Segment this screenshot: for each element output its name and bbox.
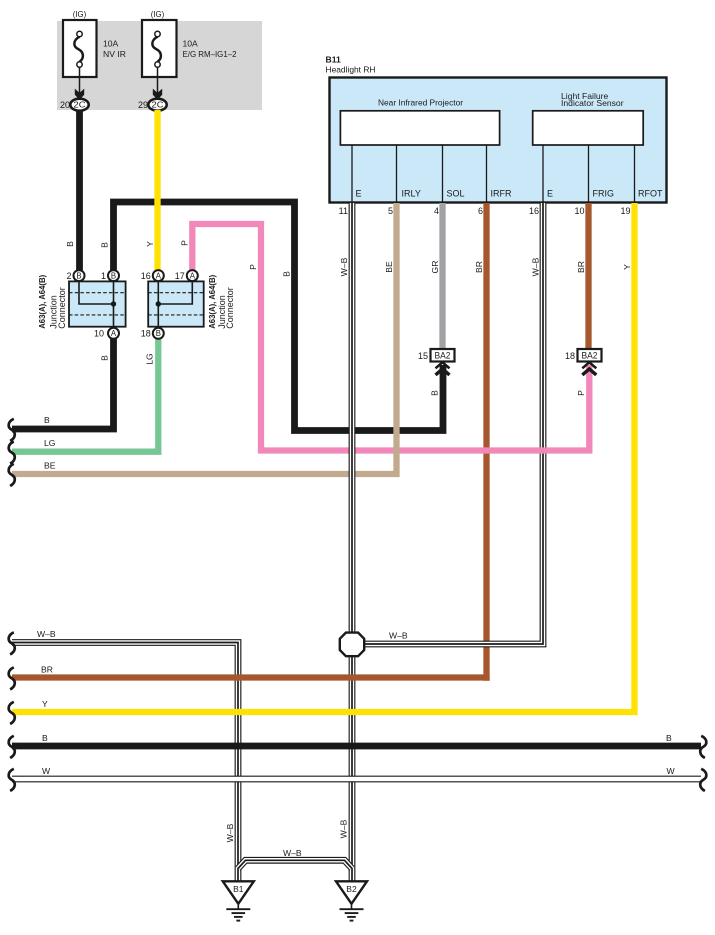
svg-text:NV IR: NV IR [103, 49, 126, 59]
svg-text:11: 11 [339, 206, 348, 216]
svg-text:GR: GR [430, 261, 440, 274]
connector 2C pin 29 [148, 99, 166, 111]
svg-text:B: B [100, 242, 110, 248]
svg-text:2: 2 [66, 271, 71, 281]
light failure indicator sensor block [533, 111, 644, 145]
wire stub pin 16 [542, 144, 544, 202]
offpage squiggle B bus right [700, 736, 706, 758]
svg-text:B: B [430, 390, 440, 396]
svg-text:Connector: Connector [57, 287, 67, 329]
svg-text:W–B: W–B [339, 257, 349, 276]
svg-text:Near Infrared Projector: Near Infrared Projector [378, 97, 463, 107]
svg-text:B: B [282, 271, 292, 277]
ground B1 [223, 881, 254, 920]
offpage squiggle BR row [9, 667, 15, 689]
svg-text:B11: B11 [326, 55, 342, 65]
fuse block gray panel [57, 21, 262, 110]
svg-text:15: 15 [418, 351, 428, 361]
wire BR bus to offpage [12, 674, 490, 680]
wire W-B offpage to B1 ground [12, 643, 238, 882]
svg-text:10A: 10A [183, 39, 199, 49]
svg-text:W–B: W–B [283, 848, 302, 858]
svg-text:W–B: W–B [339, 819, 349, 838]
svg-text:B: B [111, 271, 116, 280]
svg-text:20: 20 [60, 100, 70, 110]
junction octagon W-B [340, 633, 364, 657]
svg-text:17: 17 [175, 271, 185, 281]
svg-text:A63(A), A64(B): A63(A), A64(B) [37, 275, 47, 329]
wire BR pin6 IRFR vertical [483, 203, 489, 681]
svg-text:B: B [44, 415, 50, 425]
svg-text:2C: 2C [74, 100, 86, 110]
fuse F2 10A E/G RM-IG1-2 [142, 20, 177, 100]
connector 2C pin 20 [70, 99, 88, 111]
ground B2 [336, 881, 367, 920]
svg-text:E/G RM–IG1–2: E/G RM–IG1–2 [183, 49, 237, 59]
svg-text:Headlight RH: Headlight RH [326, 65, 376, 75]
svg-text:10: 10 [574, 206, 584, 216]
svg-text:(IG): (IG) [151, 9, 165, 19]
svg-text:18: 18 [141, 329, 151, 339]
svg-text:BR: BR [576, 261, 586, 273]
svg-text:W: W [42, 766, 51, 776]
svg-text:E: E [547, 189, 553, 199]
wire stub pin 11 [351, 144, 353, 202]
wire stub pin 4 [442, 144, 444, 202]
offpage squiggle BE row [9, 464, 15, 486]
svg-text:B: B [42, 733, 48, 743]
svg-text:(IG): (IG) [73, 9, 87, 19]
wire LG junction pin18 to offpage [12, 339, 158, 452]
svg-text:B: B [100, 355, 110, 361]
svg-text:BA2: BA2 [435, 351, 451, 361]
svg-text:BE: BE [384, 261, 394, 273]
svg-text:B: B [65, 241, 75, 247]
svg-text:BR: BR [474, 261, 484, 273]
wire B fuse F1 to junction pin2 [76, 110, 83, 271]
svg-text:P: P [576, 390, 586, 396]
svg-text:2C: 2C [152, 100, 164, 110]
wire B bottom bus [12, 743, 701, 750]
wire BE pin5 IRLY to offpage [12, 203, 397, 474]
svg-text:A: A [156, 271, 162, 280]
wire Y pin19 RFOT to offpage [12, 203, 635, 712]
wire B junction pin10 to offpage [12, 339, 114, 430]
svg-text:Y: Y [42, 699, 48, 709]
svg-text:BA2: BA2 [582, 351, 598, 361]
svg-text:19: 19 [620, 206, 630, 216]
svg-text:IRLY: IRLY [402, 189, 421, 199]
svg-text:29: 29 [138, 100, 148, 110]
svg-text:B: B [666, 733, 672, 743]
junction connector A63/A64 right [148, 270, 204, 339]
offpage squiggle W bus right [700, 769, 706, 791]
svg-text:B1: B1 [233, 884, 244, 894]
svg-text:18: 18 [565, 351, 575, 361]
offpage squiggle Y row [9, 702, 15, 724]
wire W bottom bus [12, 776, 701, 783]
wire BR pin10 FRIG to BA2-18 [585, 203, 591, 349]
svg-text:A63(A), A64(B): A63(A), A64(B) [207, 275, 217, 329]
wire W-B pin11 to octagon to B2 ground [349, 203, 356, 882]
svg-text:W–B: W–B [389, 631, 408, 641]
wire GR pin4 to BA2-15 [439, 203, 445, 349]
wire W-B pin16 E to octagon [364, 203, 543, 644]
wire P junction pin17 loop to BA2-18 [192, 224, 589, 451]
svg-text:RFOT: RFOT [638, 189, 663, 199]
component B11 Headlight RH [330, 78, 667, 203]
svg-text:Y: Y [622, 264, 632, 270]
connector BA2 pin 15 [431, 349, 455, 362]
svg-text:BE: BE [44, 461, 56, 471]
svg-text:B2: B2 [346, 884, 357, 894]
offpage squiggle B row upper [9, 419, 15, 441]
wire B junction pin1 loop to BA2-15 [114, 202, 444, 431]
wire W-B ground link B1 to B2 [238, 860, 352, 868]
fuse F1 10A NV IR [63, 20, 97, 100]
junction connector A63/A64 left [69, 270, 126, 339]
wire stub pin 19 [634, 144, 636, 202]
svg-text:W: W [667, 766, 676, 776]
svg-text:B: B [156, 329, 161, 338]
svg-text:A: A [190, 271, 196, 280]
svg-text:6: 6 [478, 206, 483, 216]
svg-text:10A: 10A [103, 39, 119, 49]
svg-text:P: P [180, 240, 190, 246]
svg-text:Indicator Sensor: Indicator Sensor [561, 98, 624, 108]
svg-text:W–B: W–B [37, 629, 56, 639]
offpage squiggle LG row [9, 442, 15, 464]
wire stub pin 5 [396, 144, 398, 202]
svg-text:16: 16 [141, 271, 151, 281]
offpage squiggle W bus left [9, 769, 15, 791]
svg-text:BR: BR [41, 665, 53, 675]
svg-text:16: 16 [529, 206, 539, 216]
wire stub pin 6 [486, 144, 488, 202]
wire Y fuse F2 to junction pin16 [154, 110, 160, 271]
connector BA2 pin 18 [578, 349, 602, 362]
svg-text:1: 1 [101, 271, 106, 281]
svg-text:W–B: W–B [531, 257, 541, 276]
svg-text:Y: Y [145, 241, 155, 247]
svg-text:IRFR: IRFR [491, 189, 512, 199]
svg-text:A: A [111, 329, 117, 338]
offpage squiggle B bus left [9, 736, 15, 758]
svg-text:P: P [248, 264, 258, 270]
offpage squiggle W-B row [9, 632, 15, 654]
svg-text:5: 5 [388, 206, 393, 216]
svg-text:SOL: SOL [447, 189, 465, 199]
near infrared projector block [340, 111, 499, 145]
svg-text:B: B [76, 271, 81, 280]
svg-text:LG: LG [145, 353, 155, 365]
svg-text:10: 10 [94, 329, 104, 339]
svg-text:FRIG: FRIG [593, 189, 615, 199]
svg-text:LG: LG [44, 438, 56, 448]
svg-text:4: 4 [434, 206, 439, 216]
svg-text:Connector: Connector [225, 287, 235, 329]
wire stub pin 10 [588, 144, 590, 202]
svg-text:W–B: W–B [225, 823, 235, 842]
svg-text:E: E [356, 189, 362, 199]
